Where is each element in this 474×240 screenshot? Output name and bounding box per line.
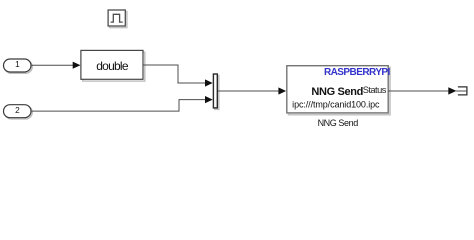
svg-text:double: double xyxy=(96,59,129,73)
svg-text:ipc:///tmp/canid100.ipc: ipc:///tmp/canid100.ipc xyxy=(292,100,380,110)
svg-text:1: 1 xyxy=(15,59,20,69)
arrowhead into NNG Send xyxy=(278,87,286,94)
block double xyxy=(81,50,145,81)
arrowhead into double xyxy=(73,62,81,69)
block Pulse Generator xyxy=(108,10,127,28)
arrowhead into mux input 2 xyxy=(205,96,213,103)
svg-text:2: 2 xyxy=(15,105,20,115)
svg-text:NNG Send: NNG Send xyxy=(311,86,363,98)
arrowhead at unconnected end xyxy=(448,87,456,94)
wire mux to NNG Send xyxy=(218,90,279,92)
inport 2 xyxy=(4,105,33,119)
wire NNG Send output xyxy=(388,90,449,92)
wire inport2 to mux input 2 xyxy=(31,100,206,112)
block NNG Send (masked subsystem) xyxy=(287,66,391,115)
dangling line stub xyxy=(456,90,466,92)
block Mux xyxy=(213,74,218,109)
svg-text:Status: Status xyxy=(363,85,387,95)
arrowhead into mux input 1 xyxy=(205,79,213,86)
svg-text:NNG Send: NNG Send xyxy=(318,118,359,128)
wire double to mux input 1 xyxy=(143,65,206,83)
svg-text:RASPBERRYPI: RASPBERRYPI xyxy=(324,67,391,78)
pulse glyph xyxy=(111,14,123,22)
inport 1 xyxy=(4,59,33,73)
wire inport1 to double xyxy=(31,64,74,66)
open connector bracket xyxy=(458,87,467,95)
